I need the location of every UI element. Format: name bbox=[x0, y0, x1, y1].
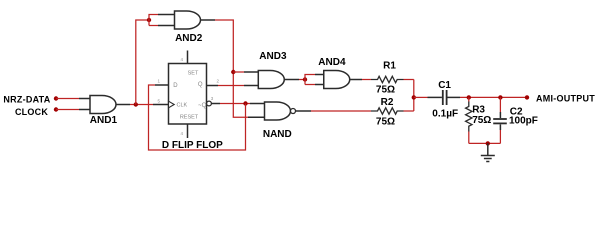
svg-text:C1: C1 bbox=[438, 80, 451, 91]
svg-text:75Ω: 75Ω bbox=[376, 84, 395, 95]
svg-text:AMI-OUTPUT: AMI-OUTPUT bbox=[536, 94, 595, 104]
resistor R3 75ohm (vertical) bbox=[468, 97, 470, 101]
svg-text:R3: R3 bbox=[472, 105, 485, 116]
svg-text:~Q: ~Q bbox=[198, 103, 207, 109]
wire Q output to AND3 bottom input bbox=[207, 85, 219, 87]
node CLOCK terminal bbox=[54, 107, 58, 111]
junction ~Q feedback bbox=[243, 101, 247, 105]
wire AND1 output to CLK of flip-flop bbox=[116, 104, 130, 106]
and-gate AND1 bbox=[90, 96, 116, 114]
wire to C1 bbox=[414, 96, 428, 98]
svg-text:75Ω: 75Ω bbox=[376, 117, 395, 128]
svg-text:AND4: AND4 bbox=[318, 57, 346, 68]
junction R3 top bbox=[467, 95, 471, 99]
wire AND3 output to AND4 inputs bbox=[284, 79, 299, 81]
wire NRZ-DATA to AND1 input A bbox=[56, 98, 79, 100]
wire R1 to output node bbox=[404, 79, 414, 81]
and-gate AND3 bbox=[258, 71, 284, 89]
wire R1/R2 join bbox=[413, 80, 415, 112]
svg-text:AND1: AND1 bbox=[90, 115, 118, 126]
wire AND4 input bracket bbox=[305, 75, 315, 85]
svg-text:NAND: NAND bbox=[263, 129, 292, 140]
flip-flop RESET pin stub bbox=[187, 124, 189, 138]
resistor R2 75ohm bbox=[371, 108, 404, 114]
svg-text:Q: Q bbox=[198, 82, 203, 88]
svg-text:0.1µF: 0.1µF bbox=[432, 109, 458, 120]
capacitor C1 0.1uF bbox=[428, 96, 442, 98]
junction AND3 top input bbox=[231, 70, 235, 74]
svg-text:R1: R1 bbox=[383, 61, 396, 72]
d-flip-flop U1 box bbox=[169, 64, 207, 125]
junction AND4 input tie bbox=[303, 77, 307, 81]
flip-flop CLK edge triangle bbox=[169, 101, 175, 108]
wire AND1 output up to AND2 inputs bbox=[136, 20, 149, 105]
svg-text:RESET: RESET bbox=[180, 114, 199, 120]
wire C1 to output terminal bbox=[460, 96, 527, 98]
junction C2 top bbox=[498, 95, 502, 99]
wire NAND output to R2 bbox=[296, 110, 311, 112]
svg-text:100pF: 100pF bbox=[509, 116, 538, 127]
svg-text:SET: SET bbox=[188, 70, 199, 76]
svg-text:D FLIP FLOP: D FLIP FLOP bbox=[162, 140, 223, 151]
wire R2 to output node bbox=[404, 110, 414, 112]
ground symbol bbox=[487, 143, 489, 155]
capacitor C2 100pF (vertical) bbox=[499, 97, 501, 112]
svg-text:R2: R2 bbox=[381, 97, 394, 108]
junction AND2 input tie bbox=[147, 18, 151, 22]
wire AND2 input bracket bbox=[149, 15, 158, 26]
node AMI-OUTPUT terminal bbox=[525, 95, 529, 99]
flip-flop ~Q bubble bbox=[207, 101, 212, 106]
svg-text:AND2: AND2 bbox=[175, 33, 203, 44]
junction ground bbox=[486, 141, 490, 145]
svg-text:D: D bbox=[173, 83, 178, 89]
junction on AND1 output bbox=[134, 102, 138, 106]
wire junction to AND3 top input bbox=[233, 71, 244, 73]
svg-text:CLK: CLK bbox=[177, 103, 188, 109]
wire CLOCK to AND1 input B bbox=[56, 109, 79, 111]
wire R3/C2 bottom to ground bbox=[469, 142, 501, 144]
nand-gate NAND bbox=[265, 102, 291, 120]
svg-text:NRZ-DATA: NRZ-DATA bbox=[3, 94, 50, 104]
wire ~Q feedback loop to D input bbox=[149, 85, 246, 150]
wire ~Q output to NAND top input bbox=[211, 103, 220, 105]
svg-text:CLOCK: CLOCK bbox=[15, 107, 48, 117]
resistor R1 75ohm bbox=[371, 76, 404, 82]
wire AND4 output to R1 bbox=[350, 79, 362, 81]
and-gate AND2 bbox=[175, 11, 201, 29]
flip-flop SET pin stub bbox=[187, 51, 189, 64]
junction R1/R2 to C1 bbox=[412, 95, 416, 99]
svg-text:75Ω: 75Ω bbox=[472, 115, 491, 126]
node NRZ-DATA terminal bbox=[54, 96, 58, 100]
and-gate AND4 bbox=[324, 71, 350, 89]
svg-text:AND3: AND3 bbox=[259, 51, 287, 62]
wire AND2 output down to AND3 / NAND bbox=[201, 19, 216, 21]
